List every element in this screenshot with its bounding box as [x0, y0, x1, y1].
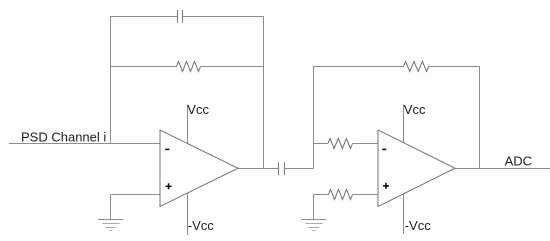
svg-text:PSD Channel i: PSD Channel i [21, 130, 106, 145]
svg-text:ADC: ADC [505, 153, 532, 168]
svg-text:Vcc: Vcc [187, 102, 209, 117]
svg-text:Vcc: Vcc [404, 102, 426, 117]
svg-text:-Vcc: -Vcc [405, 218, 432, 233]
svg-text:-Vcc: -Vcc [188, 218, 215, 233]
